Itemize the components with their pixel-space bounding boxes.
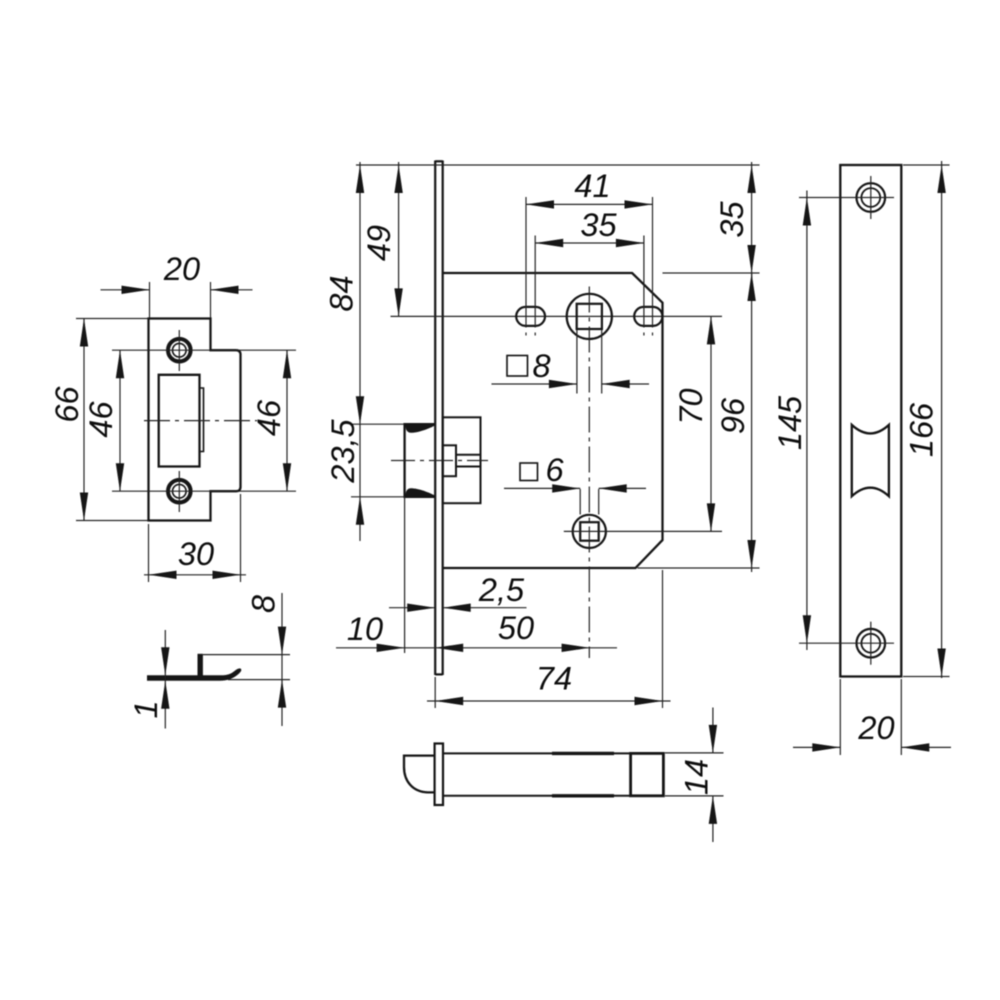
latch centerline (391, 460, 488, 462)
dimension 2,5 (389, 607, 527, 609)
centerline vertical through screws (178, 330, 180, 512)
dimension 166 (903, 161, 950, 678)
svg-text:23,5: 23,5 (325, 418, 361, 483)
right faceplate screw top (857, 176, 886, 219)
latch plunger (456, 455, 481, 467)
dimension 8 profile (281, 593, 283, 726)
dimension 30 (144, 494, 246, 582)
extension line top edge body right (663, 272, 760, 274)
strike plate outline (left view) (149, 319, 241, 521)
svg-text:96: 96 (715, 397, 751, 434)
strike plate screw bottom (168, 480, 191, 503)
bottom latch view faceplate section (435, 744, 443, 806)
svg-text:14: 14 (679, 759, 715, 795)
dimension square 6 (504, 487, 646, 489)
lock faceplate bar (center view) (435, 161, 443, 676)
right faceplate screw bottom (857, 622, 886, 665)
latch follower rect (443, 445, 456, 476)
svg-text:66: 66 (49, 386, 85, 423)
svg-text:49: 49 (361, 225, 397, 261)
svg-text:2,5: 2,5 (478, 572, 525, 608)
dimension 46 right (286, 350, 288, 491)
right faceplate latch cutout (852, 425, 889, 496)
extension lines for 41/35 (526, 197, 653, 336)
bottom hole circle (573, 515, 606, 548)
oval hole left (516, 307, 545, 326)
dimension 10 and 50 (336, 647, 617, 649)
dimension 20 right (793, 679, 951, 755)
dimension 41 (526, 203, 653, 205)
dimension 66 (76, 319, 149, 521)
spindle square 8 (577, 304, 602, 329)
bottom latch tail (443, 753, 663, 795)
svg-text:8: 8 (246, 595, 282, 613)
svg-text:35: 35 (580, 207, 617, 243)
svg-text:50: 50 (498, 610, 534, 646)
strike plate screw top (168, 339, 191, 362)
strike plate slot tab (200, 388, 204, 452)
dimension 145 (799, 191, 894, 651)
svg-text:6: 6 (545, 452, 564, 488)
strike plate slot (159, 375, 200, 467)
extension line bottom edge body right (638, 567, 760, 569)
svg-text:46: 46 (83, 401, 119, 438)
dimension 49 (398, 162, 400, 316)
svg-text:20: 20 (163, 251, 200, 287)
bottom hole square 6 (580, 522, 599, 541)
dimension 70 (710, 316, 712, 531)
dimension 46 left (112, 350, 296, 491)
dimension 74 (427, 570, 671, 708)
svg-text:166: 166 (904, 402, 940, 457)
svg-text:74: 74 (536, 661, 572, 697)
oval hole right (634, 307, 662, 326)
svg-text:84: 84 (324, 275, 360, 311)
spindle vertical centerline (588, 287, 590, 659)
right faceplate outline (840, 165, 901, 677)
latch bevel bottom (405, 488, 434, 496)
svg-text:35: 35 (714, 201, 750, 238)
svg-text:41: 41 (574, 168, 610, 204)
dimension 96 (751, 273, 753, 572)
profile view bar (147, 668, 241, 680)
dimension 35 right (751, 162, 753, 281)
profile view tab (198, 654, 203, 676)
bottom latch end block (631, 753, 664, 795)
svg-text:70: 70 (673, 388, 709, 424)
bottom latch thick segments (552, 753, 614, 795)
dimension 20 top-left (101, 282, 253, 318)
dimension 14 (665, 708, 724, 843)
latch bevel top (405, 425, 434, 433)
svg-text:1: 1 (128, 700, 164, 718)
svg-text:8: 8 (532, 348, 550, 384)
svg-text:10: 10 (347, 611, 383, 647)
dimension 84 (359, 162, 361, 541)
lock body outline (443, 273, 663, 568)
top extension line (356, 164, 760, 166)
profile 8 extension lines (203, 655, 290, 680)
svg-text:20: 20 (857, 710, 894, 746)
svg-text:30: 30 (178, 536, 214, 572)
hole row centerline (391, 315, 723, 317)
latch bolt protruding (405, 424, 436, 497)
svg-text:46: 46 (251, 399, 287, 436)
square hole 8 extension lines (577, 330, 602, 394)
centerline horizontal of slot (144, 420, 257, 422)
bottom latch head (404, 756, 435, 793)
dimension 1 profile (164, 630, 166, 729)
latch housing (443, 417, 481, 503)
svg-text:145: 145 (772, 395, 808, 450)
dimension square 8 (492, 383, 650, 385)
square hole 6 extension lines (580, 489, 599, 515)
spindle circle (567, 294, 612, 339)
dimension 35 top (535, 242, 644, 244)
extension lines 23,5 (351, 424, 405, 497)
bottom hole centerline (564, 530, 722, 532)
latch left edge extension (404, 497, 406, 653)
